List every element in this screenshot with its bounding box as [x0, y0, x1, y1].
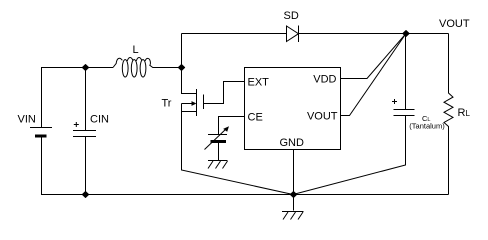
svg-text:Tr: Tr: [162, 98, 172, 110]
svg-text:VIN: VIN: [18, 114, 36, 126]
svg-text:L: L: [133, 44, 139, 56]
svg-text:VDD: VDD: [313, 74, 336, 86]
svg-text:EXT: EXT: [248, 77, 270, 89]
svg-text:CIN: CIN: [90, 114, 109, 126]
svg-text:SD: SD: [284, 10, 299, 22]
svg-text:CE: CE: [248, 112, 263, 124]
svg-text:VOUT: VOUT: [307, 111, 338, 123]
svg-text:VOUT: VOUT: [439, 18, 470, 30]
svg-text:RL: RL: [458, 107, 471, 119]
svg-text:GND: GND: [280, 137, 305, 149]
svg-text:(Tantalum): (Tantalum): [409, 122, 445, 131]
